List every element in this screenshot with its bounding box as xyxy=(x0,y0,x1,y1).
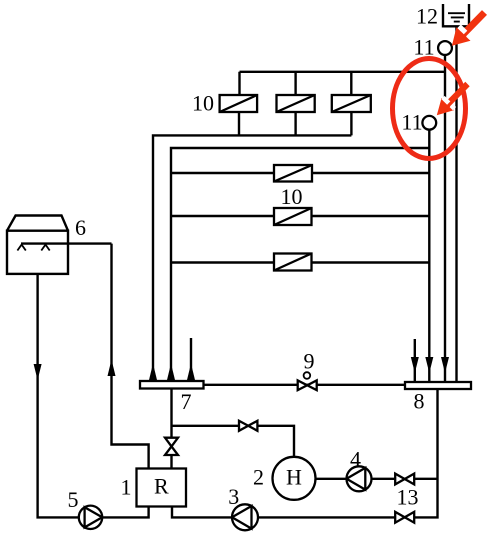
air vent 11 upper circle xyxy=(438,41,452,55)
expansion tank 6 lid xyxy=(7,216,68,231)
wire: riser left, up and over to upper radiator bottoms xyxy=(153,135,351,381)
heater H circle (component 2) xyxy=(273,457,316,500)
valve 9 xyxy=(298,380,308,390)
valve above R (vertical) xyxy=(165,438,178,447)
air vent 11 lower circle xyxy=(422,116,436,130)
svg-text:12: 12 xyxy=(416,4,438,29)
valve 13a xyxy=(395,474,405,485)
svg-text:13: 13 xyxy=(397,485,419,510)
radiator upper 2 xyxy=(277,95,315,112)
wire: vent riser lower xyxy=(428,130,430,382)
svg-text:R: R xyxy=(154,474,169,499)
valve on H branch xyxy=(239,421,248,431)
discharge mark 1 xyxy=(17,245,25,251)
flow arrow up stub xyxy=(187,364,195,381)
wire: radiator row 3 xyxy=(171,261,429,263)
wire: riser from overflow pipe down xyxy=(112,244,149,469)
wire: top distribution line xyxy=(240,71,446,73)
svg-text:10: 10 xyxy=(192,91,214,116)
radiator row3 xyxy=(274,254,312,271)
svg-text:5: 5 xyxy=(68,487,79,512)
red highlight ellipse xyxy=(393,59,466,159)
wire: H heater to riser (through pump 4, valve 13) xyxy=(316,478,437,480)
flow arrow down stub m8 xyxy=(411,357,419,373)
wire: overflow pipe into tank 6 xyxy=(21,242,112,244)
flow arrow up riser 1 xyxy=(149,364,157,381)
flow arrow down vent riser lower xyxy=(425,357,433,373)
svg-text:9: 9 xyxy=(304,349,315,374)
manifold 8 bar xyxy=(405,382,471,389)
svg-text:10: 10 xyxy=(281,184,303,209)
wire: short supply stub with arrow at manifold 7 xyxy=(190,338,192,381)
svg-text:1: 1 xyxy=(121,475,132,500)
discharge mark 2 xyxy=(41,245,49,251)
svg-text:2: 2 xyxy=(253,465,264,490)
reboiler R box (component 1) xyxy=(137,469,187,507)
pump 4 xyxy=(347,466,372,491)
tank 12 water level xyxy=(448,13,465,21)
red annotation arrow 1 xyxy=(452,10,487,46)
manifold 7 bar xyxy=(140,381,204,389)
svg-text:7: 7 xyxy=(181,389,192,414)
wire: branch from drain to H heater top xyxy=(172,426,295,458)
svg-text:3: 3 xyxy=(228,484,239,509)
svg-text:11: 11 xyxy=(413,35,434,60)
radiator upper 1 xyxy=(220,95,258,112)
wire: radiator row 2 xyxy=(171,215,429,217)
pump 3 xyxy=(232,504,258,530)
svg-text:6: 6 xyxy=(75,215,86,240)
radiator row2 xyxy=(274,208,312,225)
expansion tank 6 body xyxy=(7,231,68,274)
valve 9 circle xyxy=(304,372,311,379)
wire: manifold 7 drain down to R box xyxy=(170,389,172,469)
wire: upper radiator 1 stubs xyxy=(238,72,241,136)
radiator row1 xyxy=(274,165,312,182)
wire: upper radiator 2 stubs xyxy=(294,72,296,136)
svg-text:H: H xyxy=(286,464,302,489)
radiator upper 3 xyxy=(332,95,371,112)
flow arrow up return riser xyxy=(108,360,116,377)
wire: upper radiator 3 stubs xyxy=(350,72,353,136)
flow arrow down vent riser upper xyxy=(441,357,449,373)
tank 12 body xyxy=(443,4,469,26)
flow arrow down tank6 drain xyxy=(34,364,42,380)
red annotation arrow 2 xyxy=(437,82,470,116)
svg-text:11: 11 xyxy=(401,110,422,135)
wire: tank 12 feed line xyxy=(455,26,457,382)
wire: tank 6 drain down to pump 5 line xyxy=(38,274,149,518)
svg-text:4: 4 xyxy=(350,447,361,472)
wire: R box bottom to pump 3 line, up to manifold 8 xyxy=(172,389,438,517)
wire: manifold 7 to manifold 8 bottom main xyxy=(204,384,406,386)
wire: riser 2, up and over to vent riser xyxy=(171,148,429,381)
valve 13b xyxy=(395,512,405,523)
flow arrow up riser 2 xyxy=(167,364,175,381)
wire: radiator row 1 xyxy=(171,172,429,174)
wire: vent riser upper xyxy=(444,55,446,382)
svg-text:8: 8 xyxy=(414,389,425,414)
wire: short stub with arrow at manifold 8 xyxy=(414,339,416,382)
pump 5 xyxy=(79,506,102,529)
